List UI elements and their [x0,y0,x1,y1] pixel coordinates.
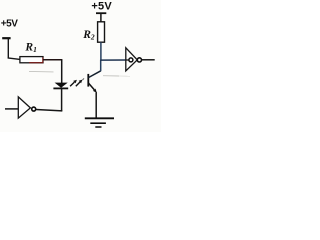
resistor R2 [98,22,105,42]
light arrow 2 [76,82,80,86]
wire LED cathode down [61,89,63,112]
wire R1 to LED [43,59,62,61]
node wire to inverter U2 [100,59,126,61]
+5V terminal bar (right) [96,12,106,14]
wire to R1 [8,58,21,60]
Q1 collector diagonal [88,71,100,78]
Q1 collector lead up [100,60,102,71]
+5V terminal bar (left) [2,37,10,39]
wire to inverter U1 output [36,110,62,111]
resistor R1 [20,57,43,63]
inverter U1 bubble [32,107,36,111]
faint package line left [29,70,54,73]
Q1 emitter arrowhead [93,89,97,93]
ground [85,117,114,119]
wire down to LED anode [61,60,63,83]
svg-text:+5V: +5V [1,19,18,30]
phototransistor Q1 base bar [87,74,89,87]
inverter U2 (triangle) [126,48,138,71]
light arrow 1 [70,82,74,86]
Q1 emitter diagonal [88,83,94,90]
U2 inner circle [129,58,133,62]
LED cathode bar [53,87,68,89]
wire from +5V to R2 [100,14,102,23]
input wire to U1 [5,108,18,110]
wire into U2 to inner circle [126,59,129,61]
svg-text:+5V: +5V [91,1,112,13]
faint package line right [103,75,119,77]
wire R2 down to node [100,42,102,61]
output wire of U2 [142,59,155,61]
wire from +5V down [7,39,9,59]
wire emitter to ground [95,92,97,118]
small tick [82,78,84,80]
inverter U1 (triangle) [18,97,30,118]
LED D (optocoupler emitter diode) [55,83,68,88]
U2 bubble [137,58,141,62]
